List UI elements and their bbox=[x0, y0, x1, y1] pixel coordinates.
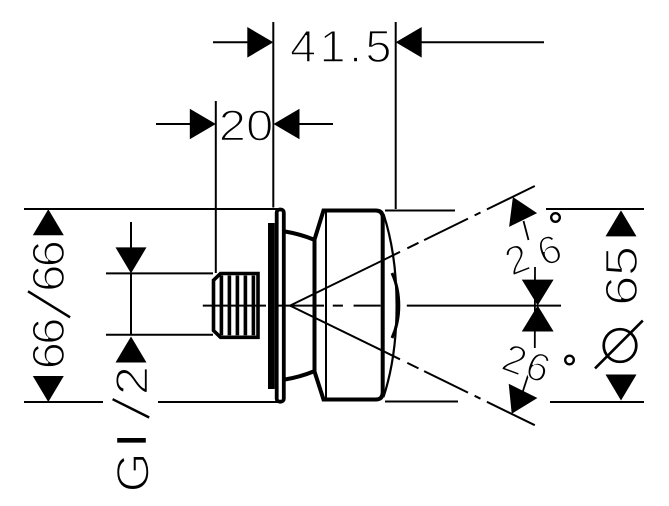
arrow 41.5 left (points right) bbox=[247, 27, 273, 58]
extension line vertical x=216 (20 dim left) bbox=[215, 101, 217, 273]
fixture: wall flange (edge view) bbox=[277, 210, 284, 402]
fixture: neck bottom curve bbox=[285, 372, 314, 380]
bowtie arrows at centerline bbox=[522, 280, 554, 332]
centerline (dash-dot) bbox=[203, 305, 561, 307]
svg-text:66: 66 bbox=[24, 241, 74, 292]
text 26 deg lower: degree circle bbox=[565, 356, 574, 365]
text 65 (of O 65) bbox=[597, 246, 647, 306]
fixture: face arc bbox=[384, 214, 397, 397]
spray axis upper 26 deg: solid part bbox=[290, 186, 535, 306]
angle arrow upper 26 (on dash-dot line) bbox=[509, 197, 537, 227]
extension line thread bottom G1/2 bbox=[106, 334, 213, 336]
arrow G1/2 bottom (points up) bbox=[116, 337, 147, 363]
arrow O65 top (points up) bbox=[606, 210, 637, 236]
svg-text:2: 2 bbox=[107, 366, 157, 396]
arrow 66/66 bottom (points down) bbox=[33, 376, 64, 402]
arrow O65 bottom (points down) bbox=[606, 375, 637, 401]
arrow 41.5 right (points left) bbox=[396, 27, 422, 58]
dimension line 20 right tail bbox=[298, 123, 333, 125]
svg-text:41.5: 41.5 bbox=[290, 21, 395, 72]
spray axis lower 26 deg: solid part bbox=[290, 306, 535, 426]
arrow 20 right (points left) bbox=[274, 109, 300, 140]
fixture: neck top curve bbox=[285, 232, 314, 240]
dimension line G1/2 middle segment bbox=[130, 274, 132, 334]
text 26 deg upper: degree circle bbox=[551, 213, 560, 222]
arrow G1/2 top (points down) bbox=[116, 247, 147, 273]
svg-text:20: 20 bbox=[219, 101, 274, 150]
fixture: body outline bbox=[315, 211, 383, 400]
svg-text:65: 65 bbox=[597, 246, 647, 306]
svg-text:G: G bbox=[109, 452, 159, 492]
dimension line 41.5 right tail bbox=[420, 41, 544, 43]
text G1/2: glyph 1 (plain bar) bbox=[117, 438, 146, 443]
angle leader arc segment upper bbox=[524, 221, 529, 240]
arrow 66/66 top (points up) bbox=[33, 209, 64, 235]
fixture: body inner vertical line bbox=[325, 213, 327, 398]
extension line vertical x=395.5 (body face) bbox=[395, 22, 397, 209]
fixture: mounting bar behind flange bbox=[268, 223, 275, 389]
slash of G1/2 bbox=[113, 399, 150, 417]
svg-text:66: 66 bbox=[24, 319, 74, 370]
angle leader arc segment lower bbox=[521, 374, 529, 397]
diameter symbol circle bbox=[604, 329, 637, 362]
extension line vertical x=273.5 (flange face) bbox=[272, 22, 274, 208]
fixture: thread hatch lines bbox=[221, 276, 253, 336]
fixture: face lens bump bbox=[392, 273, 399, 338]
dimension line 41.5 left tail bbox=[213, 41, 249, 43]
angle leader arc segment middle (through bowtie) bbox=[534, 267, 536, 348]
fixture: thread stub outline bbox=[214, 274, 259, 338]
angle arrow lower 26 (on dash-dot line) bbox=[509, 384, 538, 414]
slash of 66/66 bbox=[28, 291, 70, 317]
dimension line 20 left tail bbox=[156, 123, 191, 125]
dimension line G1/2 upper stub bbox=[130, 222, 132, 249]
extension line thread top G1/2 bbox=[106, 272, 213, 274]
extension line top (66/66 and O65 upper reference) bbox=[24, 209, 644, 211]
diameter symbol slash bbox=[595, 321, 643, 369]
arrow 20 left (points right) bbox=[190, 109, 216, 140]
extension line bottom (66/66 and O65 lower reference) bbox=[24, 401, 644, 404]
